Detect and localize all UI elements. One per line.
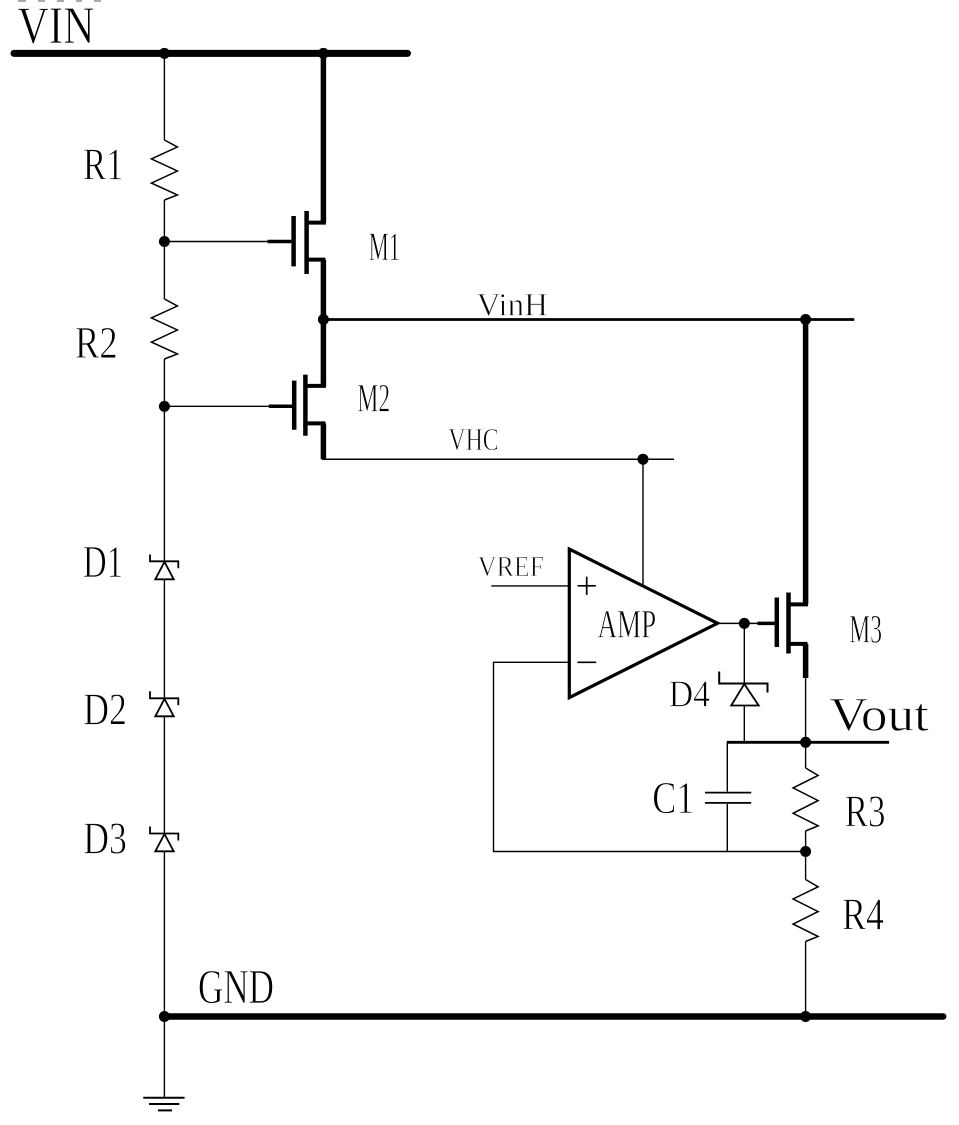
svg-text:D3: D3 [83, 813, 127, 864]
svg-text:R1: R1 [83, 138, 124, 189]
svg-text:D4: D4 [669, 674, 710, 716]
svg-text:VinH: VinH [477, 288, 548, 324]
svg-text:M3: M3 [849, 607, 882, 651]
svg-text:R2: R2 [75, 317, 118, 368]
svg-text:VIN: VIN [18, 0, 95, 55]
svg-text:VREF: VREF [478, 552, 545, 583]
svg-text:D1: D1 [83, 536, 123, 587]
svg-text:M1: M1 [369, 225, 400, 269]
svg-text:VHC: VHC [448, 421, 498, 457]
svg-text:C1: C1 [652, 772, 694, 823]
svg-text:Vout: Vout [829, 690, 929, 742]
svg-text:AMP: AMP [598, 602, 657, 647]
svg-text:R4: R4 [842, 888, 884, 939]
svg-text:D2: D2 [83, 684, 127, 735]
svg-text:M2: M2 [357, 377, 390, 421]
svg-text:R3: R3 [845, 785, 886, 836]
svg-text:GND: GND [198, 960, 274, 1014]
